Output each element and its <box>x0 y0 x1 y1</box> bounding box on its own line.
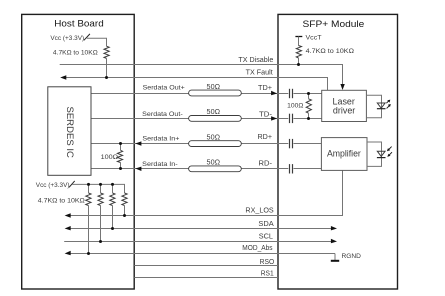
arrow TD+ right <box>271 91 277 95</box>
resistor R3 100ohm host <box>117 150 122 162</box>
wire RX_LOS <box>70 170 343 215</box>
svg-text:RS1: RS1 <box>261 270 274 277</box>
wire Serdata In- / RD- <box>91 168 321 170</box>
svg-text:RSO: RSO <box>260 259 275 266</box>
arrow MOD_Abs left <box>65 251 71 255</box>
svg-text:50Ω: 50Ω <box>207 109 221 116</box>
transmission line Z4 50ohm <box>189 166 242 172</box>
resistor R4 100ohm module <box>306 99 311 113</box>
wire R2 to TX Disable <box>298 58 300 65</box>
svg-text:Vcc (+3.3V): Vcc (+3.3V) <box>36 182 70 189</box>
capacitor C3 RD+ <box>288 139 293 149</box>
svg-text:Serdata In+: Serdata In+ <box>142 135 179 142</box>
svg-text:SDA: SDA <box>258 221 274 228</box>
svg-text:4.7KΩ to 10KΩ: 4.7KΩ to 10KΩ <box>53 50 98 57</box>
wire Serdata In+ / RD+ <box>91 143 321 145</box>
laser driver U2 <box>322 90 367 121</box>
svg-text:RGND: RGND <box>342 253 362 260</box>
host board box <box>22 14 135 289</box>
svg-text:Amplifier: Amplifier <box>327 148 361 158</box>
resistor R2 4.7K-10K module <box>296 46 301 59</box>
svg-text:SFP+ Module: SFP+ Module <box>303 19 365 30</box>
svg-text:Serdata In-: Serdata In- <box>142 161 178 168</box>
arrow SDA left <box>65 226 71 230</box>
arrow TD- right <box>271 116 277 120</box>
wire TX Fault <box>66 78 328 91</box>
svg-text:SCL: SCL <box>259 234 273 241</box>
svg-text:SERDES IC: SERDES IC <box>65 106 75 158</box>
ground RGND <box>334 254 336 261</box>
arrow Serdata In- left <box>135 167 141 171</box>
transmission line Z2 50ohm <box>189 116 242 122</box>
wire RS0 <box>134 265 278 267</box>
wire laser to LED <box>366 95 381 117</box>
capacitor C4 RD- <box>288 164 293 174</box>
svg-text:TD-: TD- <box>259 112 273 119</box>
svg-text:100Ω: 100Ω <box>287 102 303 109</box>
arrow Serdata In+ left <box>135 141 141 145</box>
svg-text:driver: driver <box>333 105 355 115</box>
svg-text:MOD_Abs: MOD_Abs <box>242 245 273 252</box>
SFP+ module box <box>278 14 398 289</box>
wire R1 to TX Fault <box>106 58 108 77</box>
junction R7/SDA <box>111 227 114 230</box>
arrow SCL right <box>331 239 337 243</box>
wire Serdata Out+ / TD+ <box>91 93 322 95</box>
LED D1 emission arrows <box>386 101 388 103</box>
svg-text:50Ω: 50Ω <box>207 134 221 141</box>
wire Serdata Out- / TD- <box>91 118 322 120</box>
wire MOD_Abs <box>70 253 335 255</box>
svg-text:4.7KΩ to 10KΩ: 4.7KΩ to 10KΩ <box>306 48 354 55</box>
svg-text:Serdata Out+: Serdata Out+ <box>143 85 185 92</box>
wire SCL <box>64 241 331 243</box>
wire TX Disable <box>60 65 343 86</box>
SERDES IC U1 <box>48 87 91 176</box>
resistor R1 4.7K-10K host <box>104 46 109 58</box>
resistor R6 pull-up SCL <box>98 193 103 206</box>
transmission line Z3 50ohm <box>189 141 242 147</box>
power slash host bottom <box>69 181 75 187</box>
svg-text:50Ω: 50Ω <box>207 160 221 167</box>
svg-text:RD-: RD- <box>259 161 273 168</box>
wire Vcc rail <box>72 184 125 193</box>
transmission line Z1 50ohm <box>189 90 242 96</box>
amplifier U3 <box>321 138 367 171</box>
arrow TX Fault left <box>60 75 66 79</box>
arrow RX_LOS left <box>65 213 71 217</box>
photodiode D2 <box>377 151 385 156</box>
svg-text:VccT: VccT <box>306 35 322 42</box>
junction R8/RX_LOS <box>123 214 126 217</box>
arrow TX Disable down into laser driver <box>340 84 344 90</box>
wire Vcc to R1 <box>87 38 107 46</box>
junction R4 bottom <box>307 117 310 120</box>
junction R3 bottom <box>119 167 122 170</box>
photodiode D2 incoming light arrows <box>389 147 392 150</box>
svg-text:4.7KΩ to 10KΩ: 4.7KΩ to 10KΩ <box>38 197 85 204</box>
resistor R7 pull-up SDA <box>110 193 115 206</box>
svg-text:RX_LOS: RX_LOS <box>245 208 274 215</box>
wire RS1 <box>134 277 278 279</box>
junction rail R6 <box>99 183 102 186</box>
wire VccT to R2 <box>298 37 300 46</box>
svg-text:TX Disable: TX Disable <box>238 57 273 64</box>
junction rail R5 <box>87 183 90 186</box>
svg-text:TD+: TD+ <box>258 85 272 92</box>
junction R2/TX Disable <box>297 63 300 66</box>
capacitor C1 TD+ <box>288 89 293 99</box>
capacitor C2 TD- <box>288 114 293 124</box>
junction rail R7 <box>111 183 114 186</box>
svg-text:100Ω: 100Ω <box>101 154 118 161</box>
resistor R8 pull-up RX_LOS <box>122 193 127 206</box>
junction R5/MOD_Abs <box>87 252 90 255</box>
svg-text:Host Board: Host Board <box>54 19 103 30</box>
svg-text:Vcc (+3.3V): Vcc (+3.3V) <box>50 35 84 42</box>
junction R6/SCL <box>99 240 102 243</box>
junction R1/TX Fault <box>105 76 108 79</box>
LED D1 laser diode <box>377 103 385 108</box>
junction R3 top <box>119 142 122 145</box>
arrow SDA right <box>331 226 337 230</box>
resistor R5 pull-up MOD_Abs <box>86 193 91 206</box>
power VccT bar <box>295 36 302 38</box>
wire amplifier to photodiode <box>367 142 382 166</box>
power slash host top <box>84 34 90 40</box>
svg-text:RD+: RD+ <box>258 134 273 141</box>
wire SDA <box>70 228 332 230</box>
svg-text:50Ω: 50Ω <box>207 84 221 91</box>
junction R4 top <box>307 92 310 95</box>
svg-text:TX Fault: TX Fault <box>246 70 273 77</box>
svg-text:Serdata Out-: Serdata Out- <box>142 111 183 118</box>
